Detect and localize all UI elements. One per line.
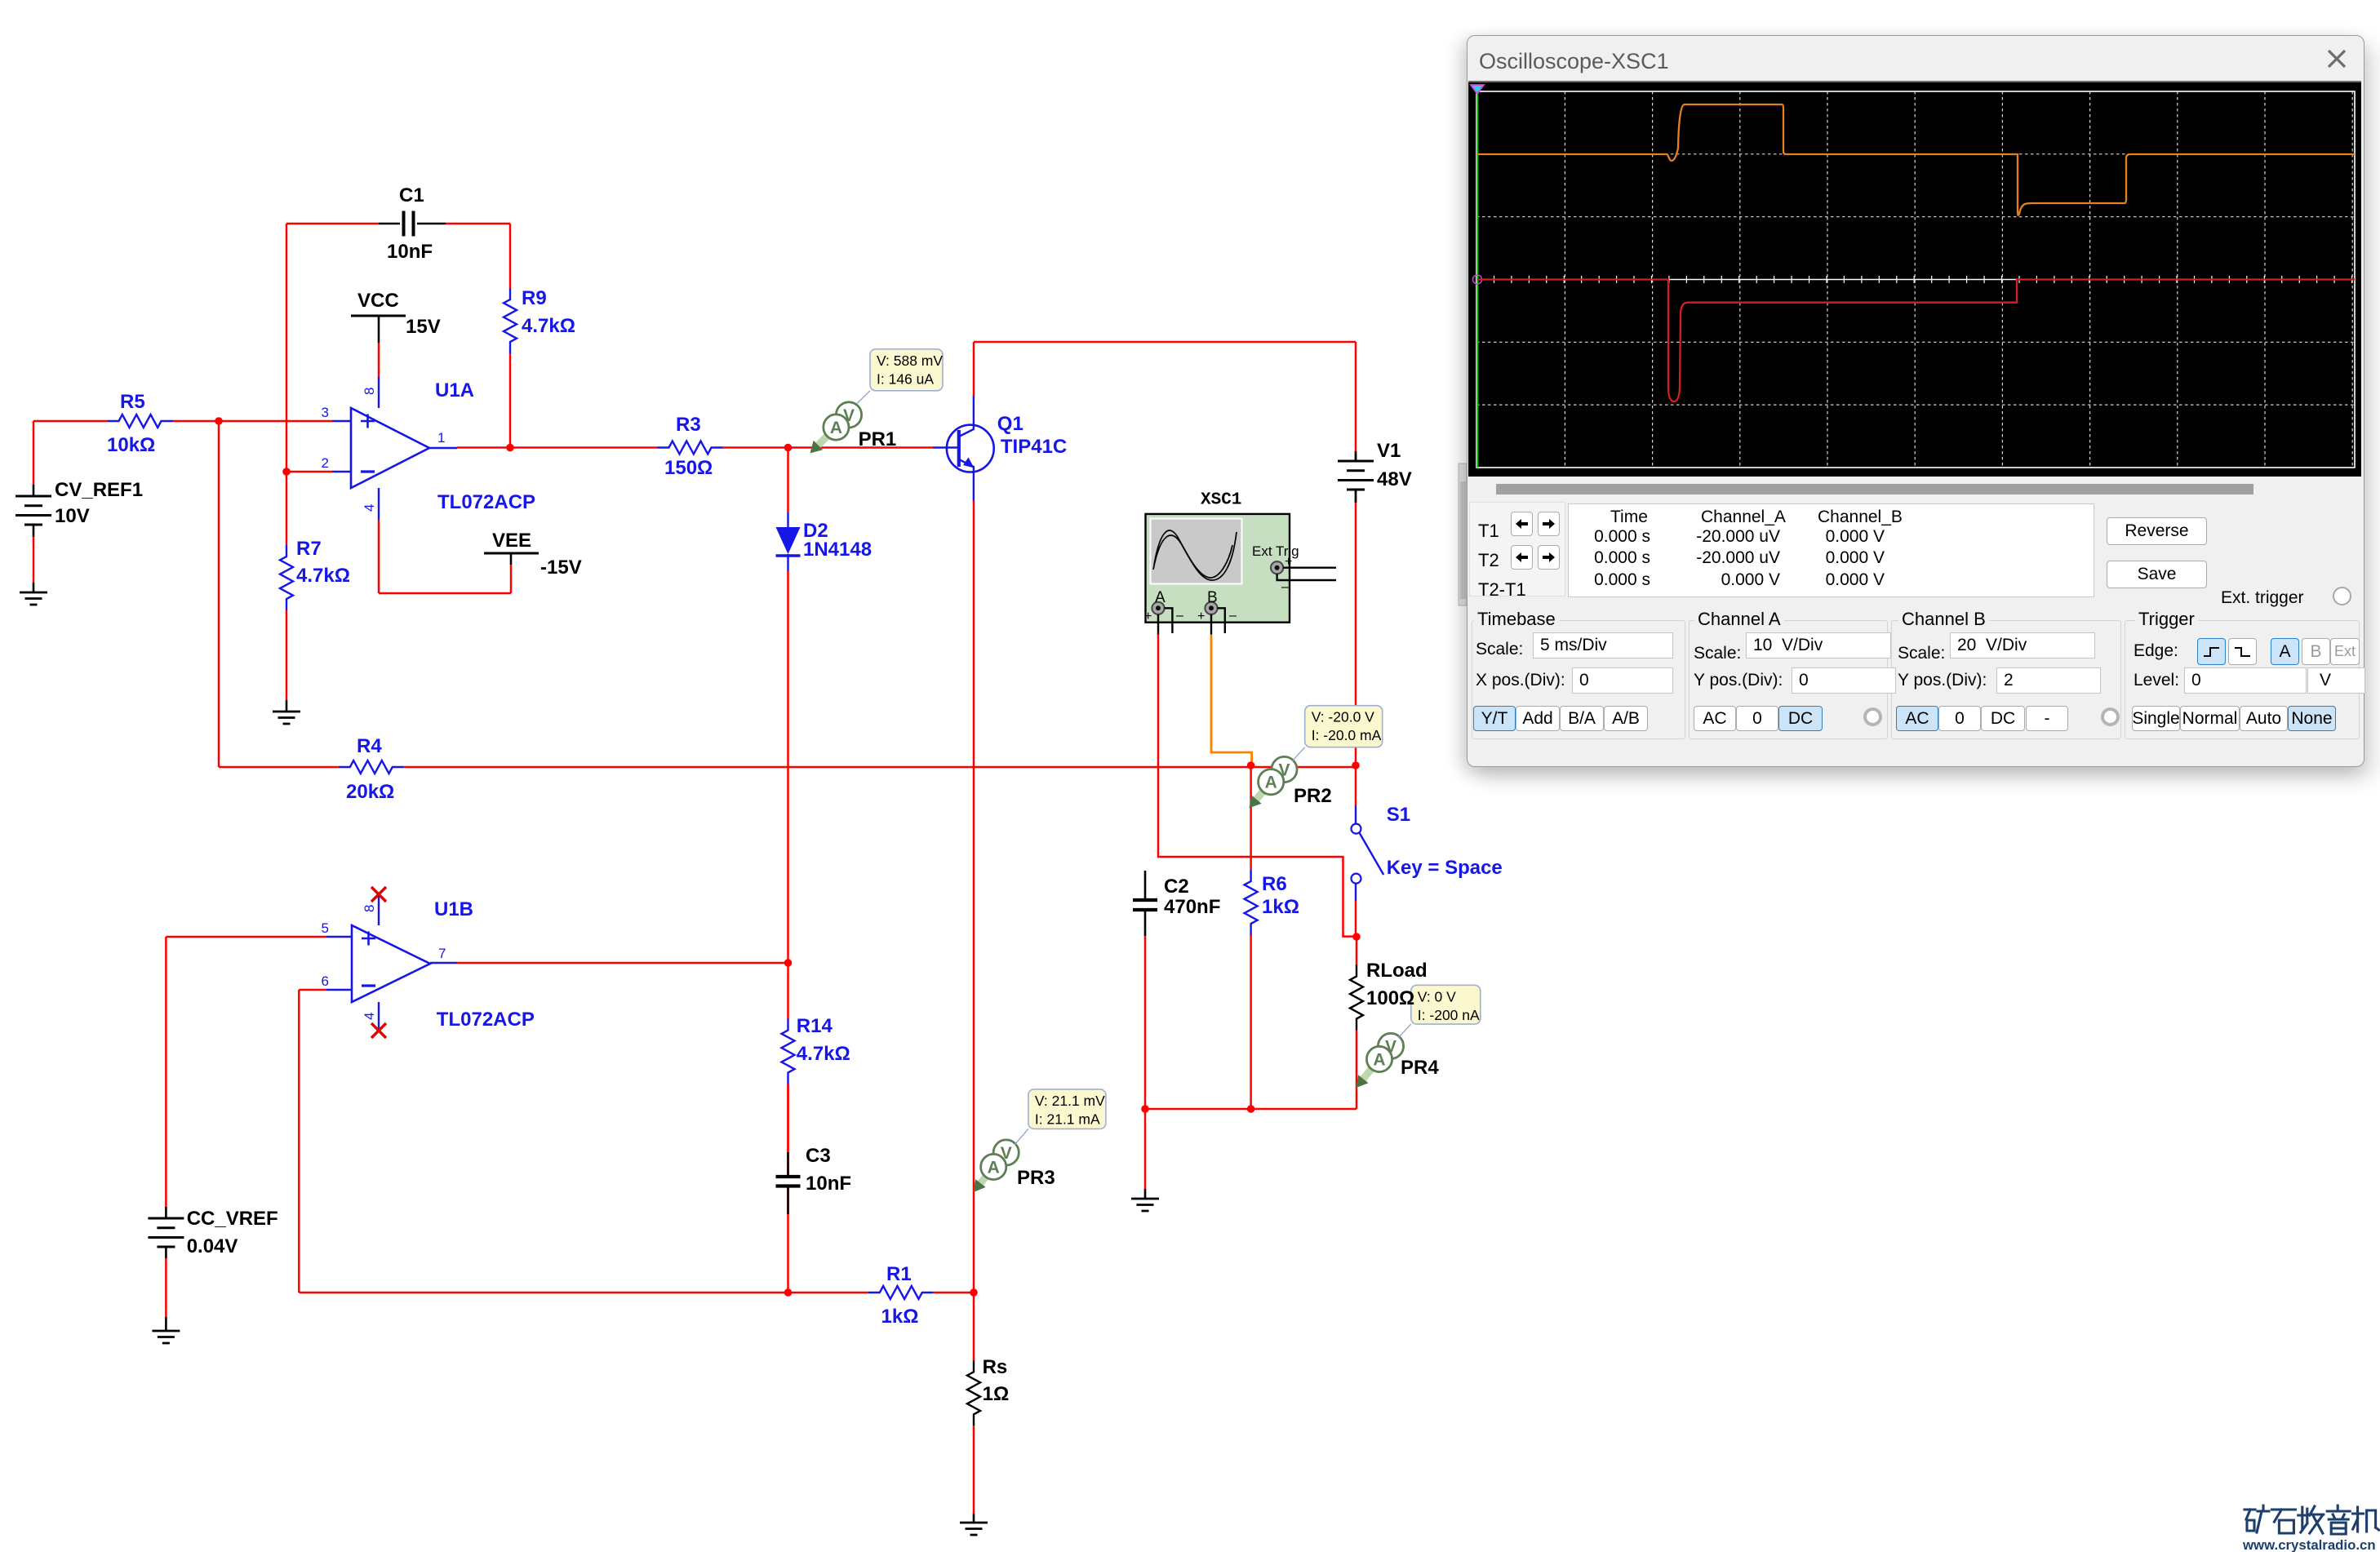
svg-text:R1: R1 — [886, 1263, 912, 1285]
svg-text:10kΩ: 10kΩ — [107, 434, 155, 456]
svg-text:A: A — [1373, 1051, 1385, 1070]
svg-text:V: -20.0 V: V: -20.0 V — [1312, 709, 1374, 725]
svg-text:–: – — [1229, 609, 1237, 623]
svg-text:R9: R9 — [522, 287, 547, 309]
svg-text:+: + — [1144, 610, 1152, 623]
svg-text:I: 146 uA: I: 146 uA — [877, 370, 934, 387]
svg-text:TL072ACP: TL072ACP — [437, 491, 535, 513]
svg-text:PR3: PR3 — [1017, 1167, 1055, 1189]
svg-text:0.04V: 0.04V — [187, 1235, 238, 1257]
svg-text:10nF: 10nF — [387, 241, 433, 263]
svg-text:PR1: PR1 — [859, 428, 897, 450]
svg-text:150Ω: 150Ω — [664, 457, 713, 479]
svg-text:RLoad: RLoad — [1366, 960, 1428, 982]
svg-text:U1A: U1A — [435, 379, 474, 401]
svg-text:2: 2 — [322, 455, 329, 471]
svg-text:1N4148: 1N4148 — [803, 539, 872, 561]
svg-text:R5: R5 — [120, 391, 145, 413]
svg-text:Rs: Rs — [983, 1356, 1008, 1378]
svg-text:A: A — [1155, 589, 1166, 606]
svg-text:R6: R6 — [1262, 873, 1287, 895]
svg-text:C3: C3 — [806, 1145, 831, 1167]
svg-text:4.7kΩ: 4.7kΩ — [296, 565, 350, 587]
svg-text:20kΩ: 20kΩ — [346, 781, 394, 803]
svg-text:4.7kΩ: 4.7kΩ — [797, 1043, 850, 1065]
svg-text:–: – — [1281, 580, 1289, 594]
svg-text:3: 3 — [322, 405, 329, 420]
svg-text:Key = Space: Key = Space — [1387, 857, 1503, 879]
svg-text:8: 8 — [362, 388, 377, 395]
svg-text:-15V: -15V — [540, 557, 582, 579]
svg-text:1kΩ: 1kΩ — [1262, 896, 1299, 918]
svg-text:1Ω: 1Ω — [983, 1383, 1010, 1405]
svg-text:15V: 15V — [406, 316, 441, 338]
svg-text:www.crystalradio.cn: www.crystalradio.cn — [2243, 1537, 2376, 1552]
svg-text:+: + — [1285, 555, 1292, 569]
svg-text:5: 5 — [322, 920, 329, 936]
svg-text:100Ω: 100Ω — [1366, 987, 1414, 1009]
svg-text:PR2: PR2 — [1294, 785, 1332, 807]
svg-text:TL072ACP: TL072ACP — [437, 1009, 535, 1031]
svg-text:48V: 48V — [1377, 468, 1412, 490]
svg-text:–: – — [1176, 609, 1183, 623]
svg-text:S1: S1 — [1387, 804, 1410, 826]
svg-text:I: -200 nA: I: -200 nA — [1418, 1007, 1480, 1023]
svg-text:V: 21.1 mV: V: 21.1 mV — [1035, 1093, 1105, 1109]
svg-text:6: 6 — [322, 973, 329, 989]
svg-text:CC_VREF: CC_VREF — [187, 1208, 278, 1230]
svg-text:VEE: VEE — [492, 530, 531, 552]
svg-text:V: 0 V: V: 0 V — [1418, 988, 1456, 1004]
svg-text:XSC1: XSC1 — [1201, 491, 1241, 510]
svg-text:1kΩ: 1kΩ — [881, 1306, 919, 1328]
svg-text:+: + — [1197, 610, 1205, 623]
svg-text:A: A — [988, 1159, 1000, 1177]
svg-text:CV_REF1: CV_REF1 — [55, 479, 143, 501]
svg-text:R7: R7 — [296, 538, 322, 560]
svg-text:Q1: Q1 — [997, 413, 1023, 435]
svg-text:B: B — [1207, 589, 1218, 606]
svg-text:PR4: PR4 — [1401, 1057, 1439, 1079]
svg-text:R14: R14 — [797, 1015, 833, 1037]
svg-text:V1: V1 — [1377, 440, 1401, 462]
svg-text:I: 21.1 mA: I: 21.1 mA — [1035, 1111, 1100, 1127]
svg-text:A: A — [1265, 774, 1277, 792]
svg-text:V: 588 mV: V: 588 mV — [877, 353, 943, 369]
svg-text:C2: C2 — [1164, 876, 1189, 898]
svg-text:C1: C1 — [399, 184, 424, 206]
svg-text:U1B: U1B — [434, 898, 473, 920]
svg-text:4: 4 — [362, 504, 377, 512]
svg-text:R3: R3 — [676, 414, 701, 436]
svg-text:10V: 10V — [55, 505, 90, 527]
svg-text:4.7kΩ: 4.7kΩ — [522, 315, 575, 337]
svg-text:TIP41C: TIP41C — [1001, 436, 1067, 458]
svg-text:A: A — [830, 419, 842, 437]
svg-text:10nF: 10nF — [806, 1173, 851, 1195]
svg-text:VCC: VCC — [357, 290, 399, 312]
svg-text:8: 8 — [362, 905, 377, 912]
svg-text:R4: R4 — [357, 735, 382, 757]
svg-text:4: 4 — [362, 1013, 377, 1020]
svg-text:I: -20.0 mA: I: -20.0 mA — [1312, 727, 1382, 743]
svg-text:7: 7 — [438, 946, 446, 961]
svg-text:1: 1 — [437, 430, 445, 446]
svg-text:470nF: 470nF — [1164, 896, 1220, 918]
